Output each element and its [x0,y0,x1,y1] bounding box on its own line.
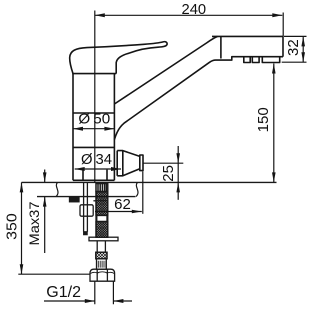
mounting stud lines [84,183,88,232]
countertop break squiggle right [136,182,138,196]
dim 25 upper reference line [143,162,183,164]
svg-text:240: 240 [182,1,207,18]
dim G1/2 left arrow [85,299,95,303]
svg-text:G1/2: G1/2 [46,284,81,301]
dim G1/2 right arrow [113,299,123,303]
nut face lines [97,269,107,281]
nipple thread lines [98,261,106,268]
svg-text:350: 350 [3,213,20,240]
dim G1/2 line left [44,300,95,302]
dim 62 extension line [142,172,144,214]
dim 32 up arrow [301,36,305,46]
clamp plate (filled) [70,197,80,202]
crimp sleeve [96,252,107,259]
spout lower diagonal [114,57,283,140]
neck left line [82,170,84,181]
svg-text:32: 32 [285,39,302,56]
dim 150 down arrow [272,172,276,182]
below-counter mounting [70,183,119,281]
dim O50 right arrow [104,127,114,131]
svg-text:25: 25 [160,165,177,182]
centerline extension [94,11,96,184]
svg-text:62: 62 [114,196,131,213]
washer line under counter [93,200,108,202]
countertop break squiggle left [56,182,58,196]
stud nut [80,205,93,216]
side nozzle seam a [116,151,118,176]
body seam at O34 box [73,146,114,148]
dim 350 up arrow [20,182,24,192]
base bottom edge [73,179,114,181]
svg-text:Max37: Max37 [27,202,42,246]
outlet block left seam [220,36,222,58]
dim 32 down arrow [301,52,305,62]
side nozzle top edge [117,151,140,157]
svg-text:Ø 34: Ø 34 [81,151,112,168]
dim 350 line [21,182,23,274]
body right edge [113,74,115,181]
threaded nipple [97,259,107,269]
hose tube [97,241,105,252]
threaded shank hatched [96,184,108,238]
body seam at O50 label [73,112,114,114]
dim 240 line [95,14,282,16]
dim 150 line [273,64,275,183]
countertop bottom line [37,196,136,198]
aerator tab 1 [244,57,250,63]
dim 62 line [95,211,142,213]
dim Max37 line above [44,170,46,183]
stud foot [84,232,87,235]
extension right for 240 [282,13,284,37]
dim 25 line [177,146,179,200]
handle lever [70,42,167,74]
dim 350 down arrow [20,264,24,274]
dim 25 lower outside arrow [176,182,180,192]
aerator tab 2 [252,57,259,63]
dim 150 up arrow [272,64,276,74]
dim O34 left arrow [75,167,85,171]
spout top edge [212,35,283,37]
dim G1/2 extension lines [95,281,114,304]
spout upper diagonal [114,36,217,104]
svg-text:150: 150 [255,107,272,132]
dim 32 top extension [284,35,307,37]
dim 350 bottom reference line [18,273,90,275]
dim G1/2 line right [113,300,132,302]
dim 32 bottom extension [282,61,307,63]
dim Max37 down arrow [43,172,47,182]
dim 240 right arrow [272,13,282,17]
side nozzle seam b [122,151,124,176]
dim 62 right arrow [132,210,142,214]
G1/2 nut [90,269,115,281]
handle base seam [72,73,116,75]
side nozzle bottom edge [117,169,140,176]
dim O50 left arrow [73,127,83,131]
neck right line [106,170,108,181]
dim 25 upper outside arrow [176,153,180,163]
aerator tab 3 [262,57,279,63]
dim 240 left arrow [95,13,105,17]
side nozzle flange bar [140,155,143,171]
dim Max37 line below [44,197,46,253]
countertop top line [22,181,277,183]
body left edge [72,74,74,181]
svg-text:Ø 50: Ø 50 [78,110,110,127]
dim O50 line [73,128,114,130]
flange washer [89,237,118,241]
dim O34 line [75,168,121,170]
dim Max37 up arrow [43,197,47,207]
dim 32 line [302,36,304,62]
dim O34 right arrow [111,167,121,171]
outlet block right edge [282,36,284,56]
nut chamfer arcs [91,272,114,274]
